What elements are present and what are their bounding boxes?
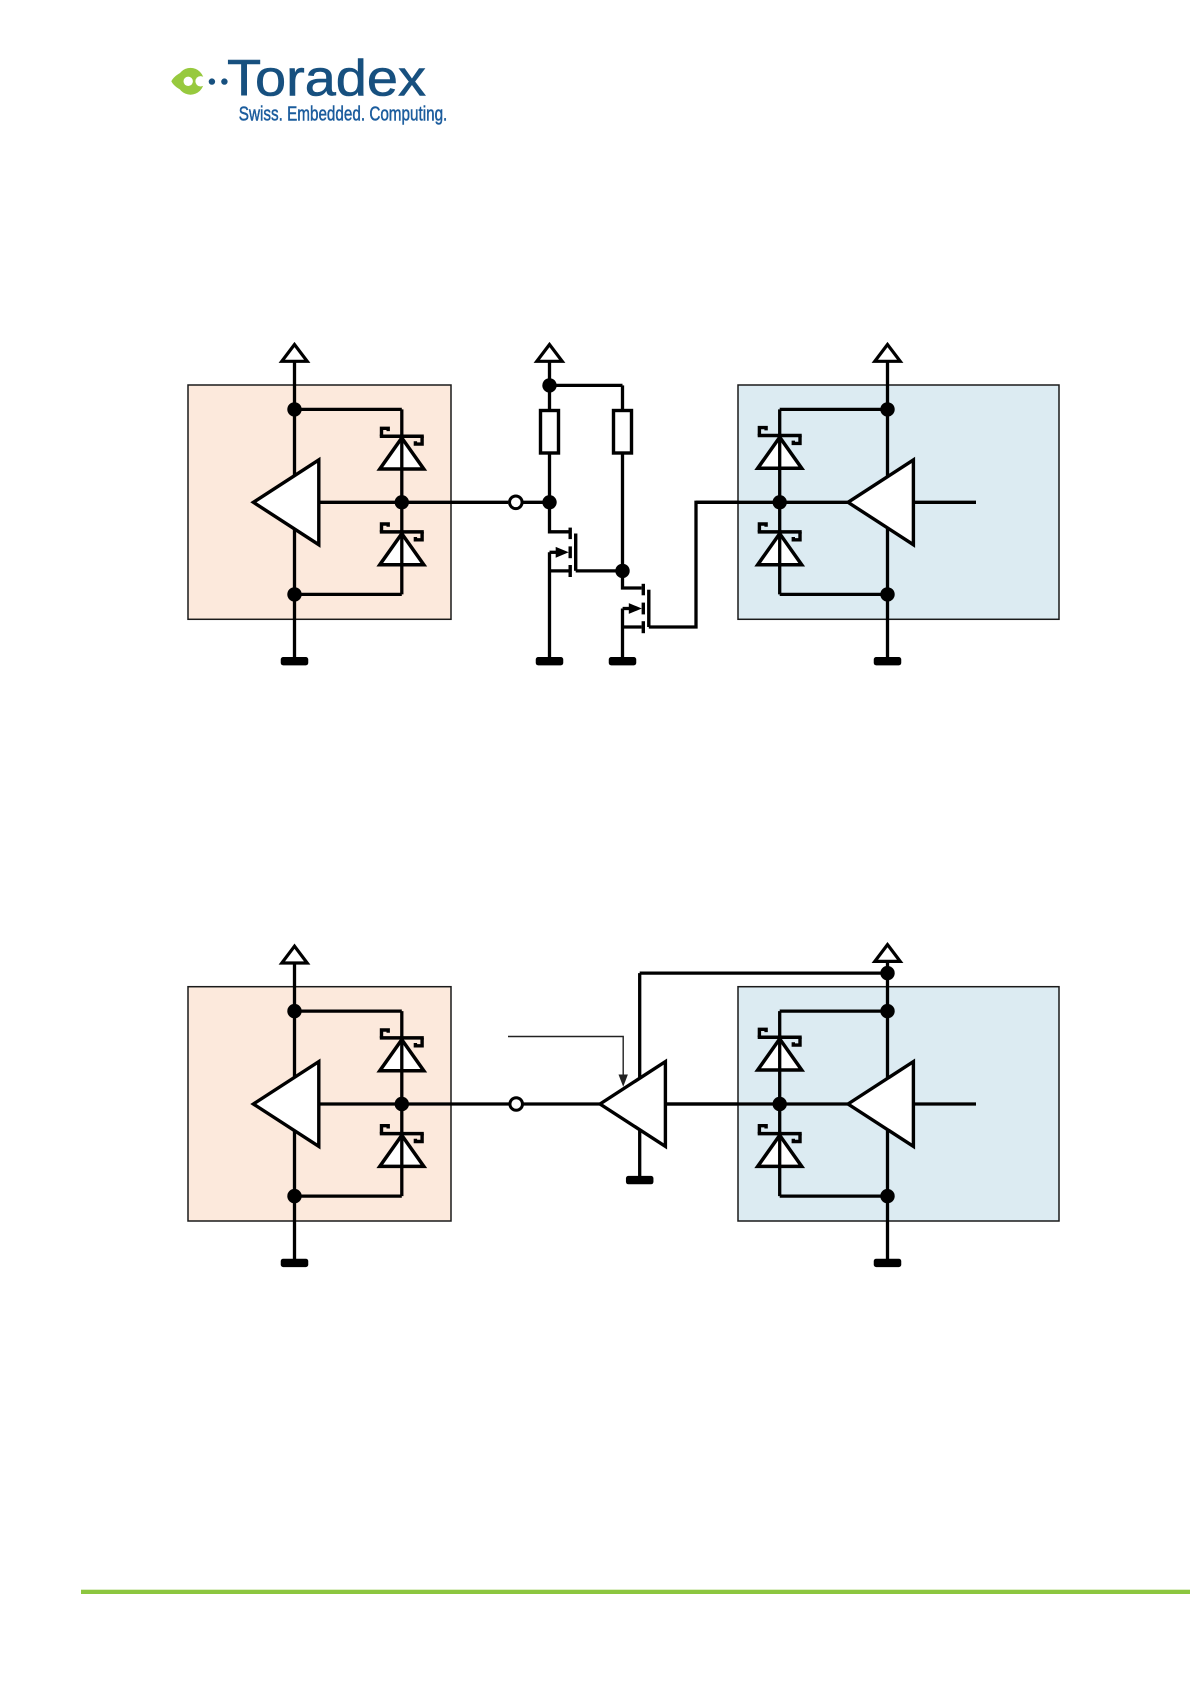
wire bubble to buffer U4 input — [523, 1102, 600, 1105]
annotation arrow to U4 supply pin — [508, 1037, 628, 1087]
node VCC5 feed junction — [880, 966, 894, 980]
connector bubble (pin) circuit 2 — [510, 1098, 523, 1111]
wire diode branch vertical U5 — [778, 1011, 781, 1196]
wire VCC5 down through U5 — [886, 961, 889, 1197]
wire U2 to ground — [886, 594, 889, 657]
wire U2 input net — [696, 501, 848, 504]
node A — [542, 495, 556, 509]
ground Q1 source — [536, 657, 564, 665]
svg-text:Toradex: Toradex — [227, 50, 426, 107]
buffer U4 (level shifting buffer) — [600, 1062, 665, 1147]
wire VCC2 rail to R2 — [550, 384, 623, 387]
buffer U2A (input receiver) — [848, 460, 913, 545]
wire top rail to diode branch U5 — [780, 1009, 888, 1012]
logo wordmark Toradex — [227, 50, 426, 107]
wire top rail to diode branch U3 — [295, 1009, 402, 1012]
wire U3 output — [319, 1102, 510, 1105]
IC block U3 (transmitter) body — [188, 987, 451, 1221]
wire U3 to ground — [293, 1196, 296, 1259]
wire supply rail (vertical through U1) — [293, 409, 296, 594]
buffer U1A (output driver) — [253, 460, 318, 545]
resistor R1 — [541, 411, 559, 454]
node U2 GND — [880, 587, 894, 601]
node U1 output pin — [395, 495, 409, 509]
power rail VCC2 symbol (mid) — [537, 345, 562, 362]
ESD diode D5 (to VCC4) — [380, 1030, 424, 1071]
ground Q2 source — [609, 657, 637, 665]
ground U5 — [874, 1259, 902, 1267]
buffer U3A (output driver) — [253, 1062, 318, 1147]
wire U5 to ground — [886, 1196, 889, 1259]
wire VCC1 to top node — [293, 361, 296, 410]
wire Q2 source to ground — [623, 609, 642, 658]
wire diode branch vertical — [400, 409, 403, 594]
wire top rail to diode branch — [295, 408, 402, 411]
resistor R2 — [614, 411, 632, 454]
node U2 VCC — [880, 402, 894, 416]
wire supply rail (vertical through U2) — [886, 409, 889, 594]
wire bottom rail to diode branch U5 — [780, 1194, 888, 1197]
wire diode branch vertical U3 — [400, 1011, 403, 1196]
logo dot 1 — [209, 78, 215, 84]
svg-text:Swiss. Embedded. Computing.: Swiss. Embedded. Computing. — [239, 102, 447, 125]
IC block U2 (receiver) body — [738, 385, 1059, 619]
wire U5A output stub — [913, 1102, 976, 1105]
power rail VCC1 symbol — [282, 345, 307, 362]
ground U2 — [874, 657, 902, 665]
transistor Q1 (NMOS) — [550, 528, 576, 577]
wire bubble to node A — [522, 501, 549, 504]
power rail VCC5 symbol — [875, 945, 900, 962]
ESD diode D3 (to VCC3) — [758, 428, 802, 469]
wire top rail to diode branch U2 — [780, 408, 888, 411]
node U3 GND — [287, 1189, 301, 1203]
wire R1 to node A — [548, 453, 551, 502]
wire VCC2 to node — [548, 361, 551, 386]
node VCC2 rail — [542, 378, 556, 392]
wire Q2 gate to receiver — [649, 502, 738, 627]
wire bottom rail to diode branch — [295, 593, 402, 596]
wire R2 top lead — [621, 385, 624, 411]
IC block U5 (receiver) body — [738, 987, 1059, 1221]
wire VCC4 to top node — [293, 962, 296, 1011]
wire U4 output to receiver — [665, 1102, 779, 1105]
wire VCC2 to R1 — [548, 385, 551, 411]
buffer U5A (input receiver) — [848, 1062, 913, 1147]
ESD diode D4 (to GND) — [758, 524, 802, 565]
ground U4 — [626, 1176, 654, 1184]
power rail VCC4 symbol — [282, 946, 307, 963]
transistor Q2 (NMOS) — [623, 584, 649, 633]
node U5 GND — [880, 1189, 894, 1203]
IC block U1 (transmitter) body — [188, 385, 451, 619]
wire Q1 source to ground — [550, 552, 569, 657]
wire bottom rail to diode branch U3 — [295, 1194, 402, 1197]
node U2 input pin — [773, 495, 787, 509]
wire diode branch vertical U2 — [778, 409, 781, 594]
logo eye white dot — [184, 77, 193, 86]
node U3 output pin — [395, 1097, 409, 1111]
node U1 GND — [287, 587, 301, 601]
logo mouth white dot — [195, 76, 205, 86]
wire supply rail (vertical through U3) — [293, 1011, 296, 1196]
wire node A to Q1 drain — [550, 502, 569, 532]
wire U1 output — [319, 501, 508, 504]
connector bubble (pin) — [510, 496, 523, 509]
wire VCC5 supply feed (horizontal) — [640, 971, 888, 974]
node U1 VCC — [287, 402, 301, 416]
wire U5 input net — [665, 1102, 848, 1105]
wire buffer U4 ground lead — [638, 1126, 641, 1176]
node U3 VCC — [287, 1004, 301, 1018]
footer rule (green) — [81, 1590, 1190, 1594]
ground U3 — [281, 1259, 309, 1267]
wire to ground — [293, 594, 296, 657]
node B — [615, 564, 629, 578]
wire U2A output stub — [913, 501, 976, 504]
logo tagline Swiss. Embedded. Computing. — [239, 102, 447, 125]
wire bottom rail to diode branch U2 — [780, 593, 888, 596]
ESD diode D8 (to GND) — [758, 1126, 802, 1167]
wire VCC5 feed down to buffer U4 — [638, 973, 641, 1080]
wire node B to Q2 drain — [623, 571, 642, 588]
wire VCC3 to top node — [886, 361, 889, 410]
node U5 VCC — [880, 1004, 894, 1018]
ESD diode D7 (to VCC5) — [758, 1029, 802, 1070]
logo dot 2 — [221, 78, 227, 84]
ground — [281, 657, 309, 665]
Toradex logo gecko head (green) — [171, 68, 204, 95]
wire R2 to node B — [621, 453, 624, 571]
wire Q1 gate to node B — [576, 569, 623, 572]
node U5 input pin — [773, 1097, 787, 1111]
power rail VCC3 symbol — [875, 345, 900, 362]
ESD diode D6 (to GND) — [380, 1126, 424, 1167]
ESD diode D1 (to VCC1) — [380, 428, 424, 469]
ESD diode D2 (to GND) — [380, 524, 424, 565]
